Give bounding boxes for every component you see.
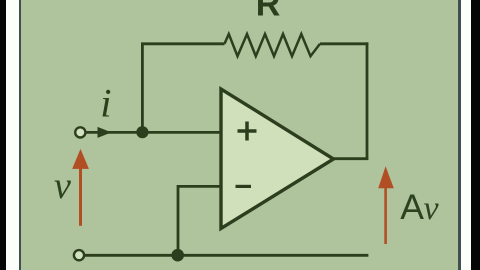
right dark edge line xyxy=(458,0,461,270)
current arrowhead i on input wire xyxy=(98,127,112,138)
svg-text:A: A xyxy=(400,187,424,227)
svg-text:v: v xyxy=(54,165,71,207)
left black pillar xyxy=(0,0,6,270)
svg-text:i: i xyxy=(100,80,111,125)
svg-text:R: R xyxy=(256,0,281,24)
wire: feedback right vertical down to output xyxy=(366,42,369,158)
node B junction dot (inverting input to ground rail) xyxy=(171,249,184,262)
wire: bottom ground rail xyxy=(85,254,369,257)
left white stripe xyxy=(6,0,19,270)
wire: inverting input vertical down to ground rail xyxy=(177,185,180,255)
voltage arrow Av (red, output side) xyxy=(384,184,387,244)
right black pillar xyxy=(471,0,480,270)
wire: feedback top-right horizontal xyxy=(320,42,368,45)
op-amp U1 triangle xyxy=(221,89,334,229)
wire: feedback top-left horizontal to resistor xyxy=(141,42,225,45)
resistor R xyxy=(225,34,321,56)
op-amp - input marker xyxy=(236,185,252,188)
op-amp + input marker xyxy=(238,122,257,141)
wire: inverting input horizontal xyxy=(178,185,221,188)
input terminal (open circle) xyxy=(75,127,85,137)
left dark edge line xyxy=(19,0,21,270)
voltage arrow v (red, input side) xyxy=(79,165,82,226)
wire: feedback left vertical (node A up to resistor) xyxy=(141,44,144,133)
wire: output segment from op-amp tip xyxy=(332,157,368,160)
right white stripe xyxy=(461,0,472,270)
wire: non-inverting input (node A to op-amp +) xyxy=(85,131,221,134)
bottom terminal (open circle) xyxy=(74,250,84,260)
node A junction dot xyxy=(136,126,148,138)
svg-text:v: v xyxy=(424,190,440,227)
